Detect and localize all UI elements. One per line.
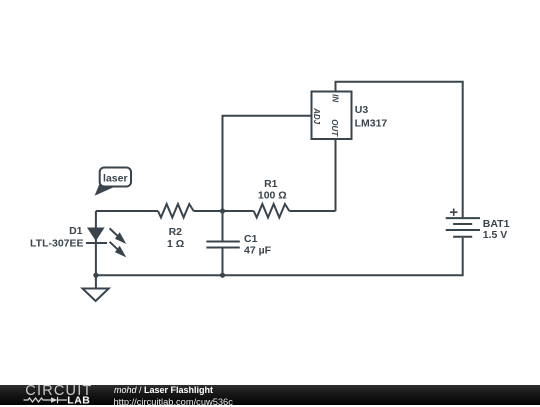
svg-text:1 Ω: 1 Ω: [167, 238, 184, 250]
svg-text:LAB: LAB: [67, 395, 90, 405]
svg-text:LTL-307EE: LTL-307EE: [30, 237, 83, 249]
svg-text:R1: R1: [264, 178, 278, 190]
svg-text:R2: R2: [169, 226, 183, 238]
svg-text:100 Ω: 100 Ω: [258, 189, 287, 201]
svg-text:C1: C1: [244, 233, 258, 245]
svg-text:OUT: OUT: [330, 119, 339, 137]
svg-text:LM317: LM317: [355, 117, 388, 129]
svg-text:1.5 V: 1.5 V: [483, 229, 508, 241]
svg-text:47 µF: 47 µF: [244, 244, 272, 256]
svg-text:IN: IN: [331, 94, 340, 102]
svg-text:ADJ: ADJ: [312, 107, 321, 125]
svg-text:D1: D1: [69, 225, 83, 237]
svg-text:U3: U3: [355, 104, 369, 116]
svg-text:laser: laser: [103, 173, 128, 185]
svg-text:BAT1: BAT1: [483, 218, 510, 230]
